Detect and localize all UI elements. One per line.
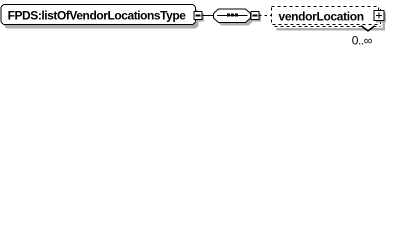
back dashed box bottom edge with V notch xyxy=(275,25,381,31)
svg-text:vendorLocation: vendorLocation xyxy=(279,9,364,23)
element box FPDS:listOfVendorLocationsType shadow xyxy=(4,9,199,29)
wire parent to sequence xyxy=(202,15,214,17)
back dashed box right edge (maxOccurs stack) xyxy=(380,9,382,27)
collapse handle of parent box (minus) xyxy=(194,12,202,20)
sequence compositor shadow xyxy=(217,12,254,26)
element box FPDS:listOfVendorLocationsType xyxy=(1,5,196,25)
collapse handle of parent box shadow xyxy=(196,14,204,22)
collapse handle of sequence (minus) xyxy=(251,12,259,20)
sequence compositor xyxy=(214,9,251,23)
occurrence label 0..infinity xyxy=(352,34,372,48)
expand button of vendorLocation shadow xyxy=(376,13,386,23)
expand button of vendorLocation (plus) xyxy=(374,11,384,21)
dashed wire sequence to vendorLocation xyxy=(259,15,272,17)
vendorLocation repeat-stack shadow right band xyxy=(383,12,386,31)
element box vendorLocation (optional, dashed) xyxy=(272,7,379,25)
collapse handle of sequence shadow xyxy=(253,14,261,22)
svg-text:0..∞: 0..∞ xyxy=(352,34,372,48)
vendorLocation repeat-stack shadow bottom band xyxy=(277,28,386,31)
svg-text:FPDS:listOfVendorLocationsType: FPDS:listOfVendorLocationsType xyxy=(8,8,187,22)
background xyxy=(0,0,413,48)
